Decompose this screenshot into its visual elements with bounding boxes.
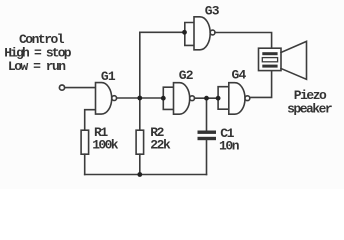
resistor R2 xyxy=(136,130,144,154)
wire R2 stem xyxy=(139,98,141,130)
junction dot G4 input xyxy=(216,96,221,101)
wire C1 stem xyxy=(206,98,208,130)
capacitor C1 bottom plate xyxy=(198,137,217,140)
svg-text:G1: G1 xyxy=(101,69,116,84)
wire G4 input bar xyxy=(218,87,229,110)
wire C1 bottom xyxy=(206,140,208,174)
wire G2 out to G4 xyxy=(195,97,219,99)
piezo body xyxy=(259,48,282,70)
piezo crystal xyxy=(262,58,277,62)
junction dot G3 input xyxy=(182,30,187,35)
svg-text:speaker: speaker xyxy=(287,102,332,117)
nand gate G2 xyxy=(174,83,190,115)
wire bottom rail xyxy=(85,174,207,176)
nand gate G4 xyxy=(229,83,245,115)
wire R1 bottom xyxy=(84,154,86,174)
G2 bubble xyxy=(190,96,195,101)
wire G3 out to piezo top xyxy=(215,33,272,49)
svg-text:High = stop: High = stop xyxy=(4,45,72,60)
junction dot G1out/R2/G3 xyxy=(137,96,142,101)
wire G1 lower input feedback xyxy=(85,110,96,131)
wire feedback up to G3 xyxy=(140,32,185,98)
speaker horn xyxy=(281,41,307,79)
wire R2 bottom xyxy=(139,154,141,174)
svg-text:22k: 22k xyxy=(150,137,171,152)
svg-text:100k: 100k xyxy=(92,137,119,152)
wire input to G1 xyxy=(65,87,96,89)
junction dot rail R2 xyxy=(137,172,142,177)
wire G1 out to G2 in xyxy=(117,97,164,99)
svg-text:10n: 10n xyxy=(219,138,240,153)
nand gate G3 xyxy=(194,17,210,50)
resistor R1 xyxy=(81,130,89,154)
piezo bottom electrode xyxy=(262,65,277,68)
wire G3 input bar xyxy=(185,23,194,46)
wire G4 out to piezo bottom xyxy=(250,71,272,98)
svg-text:Low = run: Low = run xyxy=(8,59,66,74)
nand gate G1 xyxy=(96,83,112,115)
svg-text:G2: G2 xyxy=(179,68,194,83)
G3 bubble xyxy=(210,30,215,35)
capacitor C1 top plate xyxy=(198,131,217,134)
svg-text:G4: G4 xyxy=(232,68,247,83)
junction dot G2 input xyxy=(161,96,166,101)
wire G2 input bar xyxy=(163,87,173,109)
junction dot C1 xyxy=(204,96,209,101)
G4 bubble xyxy=(245,96,250,101)
input terminal xyxy=(59,85,64,90)
G1 bubble xyxy=(112,96,117,101)
svg-text:G3: G3 xyxy=(205,3,220,18)
piezo top electrode xyxy=(262,52,277,55)
